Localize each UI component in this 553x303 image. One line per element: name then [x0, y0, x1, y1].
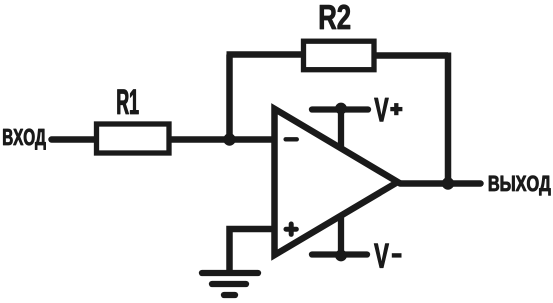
- plus sign at non-inverting input: [286, 227, 296, 232]
- V+ stub to op-amp body: [338, 110, 344, 148]
- wire: feedback right vertical segment down to output: [445, 53, 452, 185]
- V+ power rail bar: [312, 106, 368, 112]
- node A junction dot (inverting input node): [224, 134, 236, 146]
- wire: input terminal to R1: [52, 136, 97, 143]
- wire: feedback left vertical segment: [226, 55, 233, 143]
- R1 value label: [118, 90, 139, 115]
- V- power rail bar: [312, 251, 367, 257]
- ground symbol: [202, 273, 258, 295]
- resistor R2: [304, 41, 375, 69]
- node label ВХОД (input): [3, 129, 45, 150]
- V- junction dot: [336, 250, 347, 261]
- wire: R2 to right vertical feedback segment: [375, 52, 448, 59]
- wire: R1 to inverting input of op-amp: [170, 136, 274, 143]
- node label ВЫХОД (output): [489, 176, 551, 196]
- output junction dot (feedback tap): [442, 178, 454, 190]
- R2 value label: [320, 5, 350, 29]
- V- stub to op-amp body: [338, 216, 344, 255]
- V- label: [374, 244, 389, 268]
- wire: feedback top horizontal segment to R2: [227, 51, 304, 58]
- minus sign at inverting input: [286, 137, 297, 141]
- op-amp U1 triangle: [275, 109, 398, 255]
- resistor R1: [97, 124, 170, 153]
- wire: non-inverting input to ground: [230, 229, 275, 271]
- wire: op-amp output to output terminal: [400, 180, 481, 187]
- V+ label: [374, 98, 388, 121]
- V+ junction dot: [336, 103, 347, 114]
